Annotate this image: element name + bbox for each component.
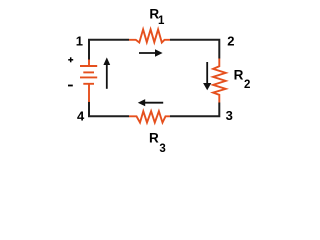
svg-text:3: 3 xyxy=(226,108,233,123)
battery + terminal label xyxy=(68,57,73,62)
svg-text:3: 3 xyxy=(159,143,165,155)
wire node 4 bottom-left corner xyxy=(89,102,129,117)
svg-text:4: 4 xyxy=(77,109,85,124)
battery top lead xyxy=(88,60,90,67)
current arrow up (right of battery) xyxy=(103,57,110,88)
wire node 3 bottom-right corner xyxy=(170,103,219,117)
svg-text:2: 2 xyxy=(244,79,250,91)
battery plate short bottom xyxy=(83,83,94,85)
wire R1 to node 2 xyxy=(170,40,219,59)
wire node1 top-left corner xyxy=(89,40,129,60)
current arrow down (left of R2) xyxy=(203,62,211,90)
battery xyxy=(80,60,97,103)
svg-text:R: R xyxy=(234,68,244,83)
battery bottom lead xyxy=(88,84,90,102)
svg-text:1: 1 xyxy=(158,15,165,27)
svg-text:R: R xyxy=(149,131,159,146)
resistor R2 xyxy=(213,59,226,103)
svg-text:1: 1 xyxy=(76,33,83,48)
battery plate long top xyxy=(80,65,97,67)
current arrow right (below R1) xyxy=(139,49,163,57)
svg-text:2: 2 xyxy=(227,34,234,49)
resistor R3 xyxy=(129,111,170,122)
current arrow left (above R3) xyxy=(138,99,163,106)
battery plate short xyxy=(83,71,94,73)
battery plate long xyxy=(80,76,97,78)
resistor R1 xyxy=(129,29,170,42)
battery - terminal label xyxy=(68,85,73,87)
